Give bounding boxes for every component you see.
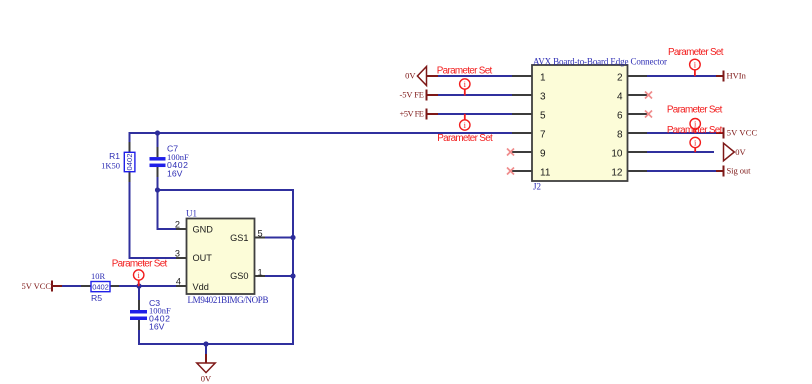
svg-text:2: 2 [617,73,623,84]
svg-text:7: 7 [540,130,546,141]
svg-text:1: 1 [258,268,263,278]
svg-text:1: 1 [540,73,546,84]
svg-text:0V: 0V [405,71,416,81]
svg-text:5: 5 [258,228,263,238]
svg-text:1K50: 1K50 [101,160,120,170]
svg-text:4: 4 [617,92,623,103]
svg-text:3: 3 [175,248,180,258]
svg-text:11: 11 [540,168,551,179]
svg-text:6: 6 [617,111,623,122]
svg-text:+5V FE: +5V FE [400,109,425,119]
svg-text:Parameter Set: Parameter Set [667,125,723,136]
svg-text:0V: 0V [201,374,212,384]
svg-text:Vdd: Vdd [193,282,209,292]
svg-text:5V VCC: 5V VCC [727,128,758,138]
svg-text:10: 10 [611,149,623,160]
svg-text:2: 2 [175,219,180,229]
svg-text:Sig out: Sig out [727,166,752,176]
svg-text:C3: C3 [149,298,160,308]
svg-text:8: 8 [617,130,623,141]
svg-text:C7: C7 [167,143,178,153]
svg-text:0402: 0402 [125,154,134,171]
svg-text:i: i [694,138,697,148]
svg-text:Parameter Set: Parameter Set [668,47,724,58]
svg-text:i: i [138,270,141,280]
svg-text:-5V FE: -5V FE [400,90,425,100]
svg-text:R5: R5 [91,293,102,303]
svg-text:5V VCC: 5V VCC [22,281,52,291]
svg-text:i: i [464,120,467,130]
svg-text:AVX Board-to-Board Edge Connec: AVX Board-to-Board Edge Connector [533,57,667,67]
svg-text:i: i [464,79,467,89]
svg-text:9: 9 [540,149,546,160]
svg-text:OUT: OUT [193,253,213,263]
svg-text:5: 5 [540,111,546,122]
svg-text:3: 3 [540,92,546,103]
svg-text:GS1: GS1 [230,233,248,243]
svg-text:U1: U1 [186,209,197,219]
svg-text:12: 12 [611,168,623,179]
svg-text:HVIn: HVIn [727,71,747,81]
svg-text:Parameter Set: Parameter Set [112,259,168,270]
svg-text:Parameter Set: Parameter Set [667,104,723,115]
svg-text:GS0: GS0 [230,271,248,281]
svg-text:Parameter Set: Parameter Set [437,65,493,76]
svg-text:10R: 10R [91,271,106,281]
svg-text:16V: 16V [149,322,165,332]
svg-text:LM94021BIMG/NOPB: LM94021BIMG/NOPB [188,295,269,305]
svg-text:R1: R1 [109,151,120,161]
svg-text:0402: 0402 [92,282,109,291]
svg-text:4: 4 [176,276,181,286]
svg-text:GND: GND [193,224,214,234]
svg-text:Parameter Set: Parameter Set [437,133,493,144]
svg-text:i: i [694,60,697,70]
svg-text:16V: 16V [167,168,183,178]
svg-text:0V: 0V [735,147,746,157]
svg-text:J2: J2 [533,182,541,192]
